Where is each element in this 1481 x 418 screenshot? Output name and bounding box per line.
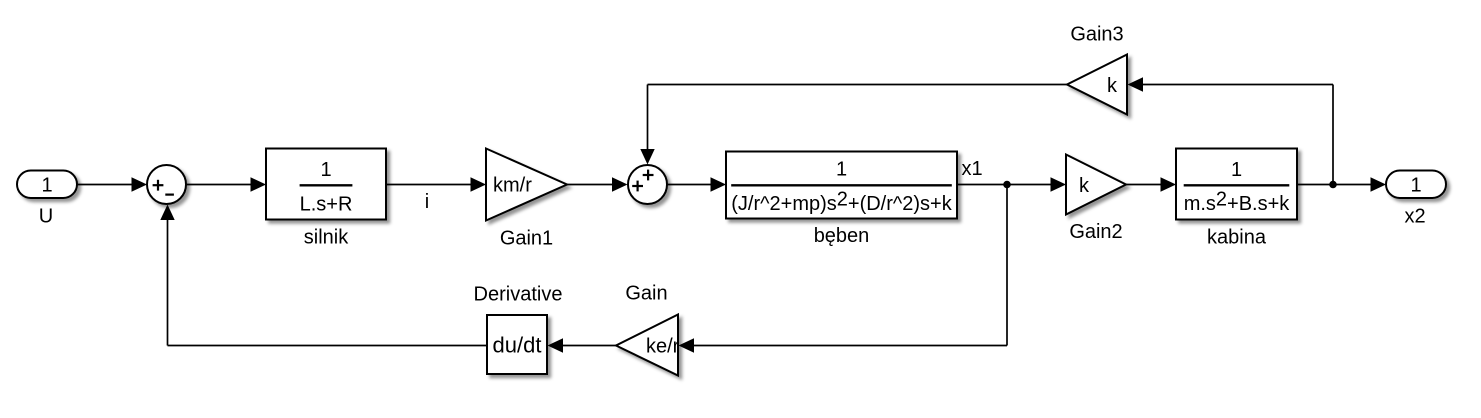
gain Gain ke/r (bottom feedback) bbox=[616, 315, 680, 376]
svg-text:Gain3: Gain3 bbox=[1070, 24, 1123, 46]
kabina label bbox=[1207, 227, 1267, 249]
wire Gain2 to kabina bbox=[1126, 177, 1176, 191]
sum junction Sum2 bbox=[628, 165, 667, 204]
node x1 junction dot bbox=[1003, 181, 1011, 189]
Derivative label bbox=[474, 284, 563, 306]
outport x2 label bbox=[1404, 206, 1425, 228]
wire Gain3 output to Sum2 top bbox=[640, 85, 1067, 165]
wire beben to Gain2 bbox=[957, 177, 1066, 191]
transfer function silnik bbox=[266, 149, 386, 220]
svg-text:1: 1 bbox=[1410, 175, 1421, 197]
svg-text:1: 1 bbox=[320, 159, 331, 181]
inport U label bbox=[39, 206, 53, 228]
node x2 junction dot bbox=[1329, 181, 1337, 189]
node i label bbox=[425, 191, 429, 213]
gain Gain1 km/r bbox=[486, 149, 567, 221]
beben label bbox=[814, 225, 870, 247]
wire bottom feedback to Gain input bbox=[679, 338, 1008, 352]
svg-text:km/r: km/r bbox=[493, 175, 532, 197]
Gain3 label bbox=[1070, 24, 1123, 46]
wire silnik to Gain1 bbox=[386, 177, 486, 191]
transfer function beben bbox=[726, 152, 957, 219]
svg-text:U: U bbox=[39, 206, 53, 228]
svg-text:1: 1 bbox=[1231, 159, 1242, 181]
svg-text:k: k bbox=[1107, 75, 1118, 97]
sum junction Sum1 bbox=[147, 165, 186, 204]
wire Gain output to Derivative input bbox=[548, 338, 617, 352]
svg-text:Gain: Gain bbox=[625, 283, 667, 305]
transfer function kabina bbox=[1176, 149, 1297, 220]
wire Sum1 to silnik bbox=[186, 177, 266, 191]
node x1 label bbox=[961, 158, 982, 180]
Gain label bbox=[625, 283, 667, 305]
svg-text:x1: x1 bbox=[961, 158, 982, 180]
svg-text:du/dt: du/dt bbox=[493, 333, 542, 358]
wire kabina to outport x2 bbox=[1297, 177, 1386, 191]
gain Gain2 k bbox=[1066, 155, 1126, 215]
svg-text:1: 1 bbox=[41, 175, 52, 197]
gain Gain3 k (top feedback) bbox=[1067, 55, 1127, 115]
wire x2 node up to top feedback bbox=[1332, 85, 1334, 185]
Gain2 label bbox=[1069, 221, 1122, 243]
wire Derivative output to Sum1 bottom bbox=[160, 205, 487, 346]
svg-text:silnik: silnik bbox=[304, 227, 349, 249]
svg-text:L.s+R: L.s+R bbox=[300, 194, 353, 216]
svg-text:Derivative: Derivative bbox=[474, 284, 563, 306]
svg-text:kabina: kabina bbox=[1207, 227, 1267, 249]
svg-text:Gain2: Gain2 bbox=[1069, 221, 1122, 243]
derivative block du/dt bbox=[487, 315, 547, 374]
wire x1 node down to bottom feedback bbox=[1006, 185, 1008, 346]
Gain1 label bbox=[500, 228, 553, 250]
silnik label bbox=[304, 227, 349, 249]
svg-text:x2: x2 bbox=[1404, 206, 1425, 228]
wire Gain1 to Sum2 bbox=[567, 177, 628, 191]
svg-text:Gain1: Gain1 bbox=[500, 228, 553, 250]
outport x2 bbox=[1386, 171, 1446, 199]
inport U bbox=[17, 171, 77, 199]
svg-text:k: k bbox=[1079, 175, 1090, 197]
svg-text:bęben: bęben bbox=[814, 225, 870, 247]
svg-text:ke/r: ke/r bbox=[646, 336, 680, 358]
wire Sum2 to beben bbox=[668, 177, 727, 191]
wire top feedback to Gain3 input bbox=[1128, 77, 1334, 91]
svg-text:i: i bbox=[425, 191, 429, 213]
svg-text:1: 1 bbox=[836, 159, 847, 181]
svg-text:m.s2+B.s+k: m.s2+B.s+k bbox=[1184, 189, 1291, 216]
wire U to Sum1 bbox=[77, 177, 147, 191]
